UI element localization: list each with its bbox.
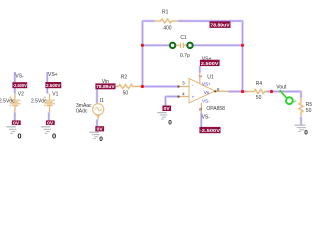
svg-text:R2: R2 <box>121 75 128 81</box>
svg-text:0V: 0V <box>13 120 19 125</box>
wire R5 to ground <box>300 117 303 125</box>
svg-text:VS-: VS- <box>202 99 210 104</box>
wire feedback top horizontal left of R1 <box>142 20 155 23</box>
wire Vin horizontal <box>97 85 113 88</box>
svg-text:78.89uV: 78.89uV <box>96 84 114 89</box>
wire Vin vertical to I1 <box>96 86 99 103</box>
ground 0 (opamp pin4) <box>157 113 167 119</box>
wire corner down to R5 <box>300 92 303 99</box>
bias annotation -2.500V (pin5) <box>199 127 220 133</box>
svg-text:5: 5 <box>197 108 203 111</box>
svg-text:VS+: VS+ <box>48 72 58 78</box>
svg-text:50: 50 <box>256 95 262 101</box>
svg-text:50: 50 <box>123 90 129 96</box>
bias annotation 0V (V2 gnd) <box>12 120 21 125</box>
svg-text:0.7p: 0.7p <box>180 53 190 59</box>
bias annotation 0V (V1 gnd) <box>46 120 55 125</box>
resistor R4 <box>247 81 267 101</box>
junction C1 right <box>241 44 244 47</box>
wire V1 power pole <box>46 72 49 94</box>
resistor R2 <box>113 75 140 97</box>
wire C1 row left <box>143 44 170 47</box>
svg-text:0: 0 <box>52 131 56 140</box>
svg-text:Vs: Vs <box>204 90 210 95</box>
svg-text:0: 0 <box>99 136 103 143</box>
junction R2 / feedback <box>141 85 144 88</box>
bias annotation 0V (pin4 gnd) <box>162 106 171 112</box>
svg-text:3: 3 <box>182 81 185 87</box>
svg-text:400: 400 <box>163 25 172 31</box>
bias annotation 78.89uV (top) <box>210 21 231 28</box>
wire I1 bottom to ground <box>96 120 99 127</box>
svg-text:I1: I1 <box>100 98 104 104</box>
svg-text:+: + <box>192 95 195 100</box>
svg-text:2.500V: 2.500V <box>46 83 60 88</box>
svg-text:0: 0 <box>168 119 172 126</box>
current marker green ring C1 right <box>187 43 192 48</box>
resistor R5 vertical <box>299 98 312 116</box>
wire pin4 vertical to ground <box>164 97 167 107</box>
wire V2 bottom <box>13 113 16 121</box>
svg-text:-2.500V: -2.500V <box>200 128 220 133</box>
svg-text:0: 0 <box>304 129 308 136</box>
voltage source V2 battery <box>0 92 24 113</box>
svg-text:0Adc: 0Adc <box>76 109 88 115</box>
svg-text:0V: 0V <box>47 120 53 125</box>
bias annotation 78.89uV (Vin) <box>95 83 115 89</box>
wire opamp pin5 power <box>200 113 203 128</box>
svg-text:C1: C1 <box>180 35 187 41</box>
svg-text:OPA858: OPA858 <box>206 106 225 112</box>
svg-text:7: 7 <box>197 75 203 78</box>
svg-text:50: 50 <box>306 108 312 114</box>
wire feedback top horizontal right of R1 <box>178 20 243 23</box>
wire V2 power pole <box>13 72 16 94</box>
resistor R1 <box>155 10 179 32</box>
current source I1 <box>76 98 104 119</box>
svg-text:2.5Vdc: 2.5Vdc <box>31 98 47 104</box>
ground 0 (I1) <box>89 132 99 138</box>
wire pin4 horizontal <box>165 95 179 98</box>
svg-text:6: 6 <box>217 87 220 93</box>
junction output / feedback <box>241 90 244 93</box>
svg-text:VS-: VS- <box>15 74 24 80</box>
svg-text:78.89uV: 78.89uV <box>210 23 229 28</box>
op-amp U1 OPA858 <box>178 73 229 114</box>
wire V1 bottom <box>47 113 50 121</box>
current marker green ring C1 left <box>170 43 175 48</box>
bias annotation 0V (I1 gnd) <box>95 126 104 131</box>
svg-text:VS+: VS+ <box>202 81 211 86</box>
svg-text:V1: V1 <box>52 92 58 98</box>
ground 0 (R5) <box>295 125 306 131</box>
svg-text:V2: V2 <box>18 92 24 98</box>
svg-text:Vout: Vout <box>276 85 287 91</box>
wire opamp pin7 power <box>198 66 201 73</box>
wire R4 to corner <box>266 90 301 93</box>
wire feedback right vertical <box>241 20 244 91</box>
wire feedback left vertical <box>141 21 144 87</box>
svg-text:R4: R4 <box>256 81 263 87</box>
wire opamp output to R4 <box>229 90 247 93</box>
svg-text:VS-: VS- <box>202 114 211 120</box>
svg-text:-2.500V: -2.500V <box>13 83 27 88</box>
voltage source V1 battery <box>31 92 59 113</box>
svg-text:U1: U1 <box>207 75 214 81</box>
svg-text:0V: 0V <box>97 127 103 132</box>
ground 0 (V1) <box>41 127 51 134</box>
bias annotation 2.500V (V1) <box>45 82 61 88</box>
bias annotation -2.500V (V2) <box>12 82 27 88</box>
svg-text:R1: R1 <box>162 10 169 16</box>
wire C1 row right <box>194 44 243 47</box>
bias annotation 2.500V (pin7) <box>200 60 220 66</box>
capacitor C1 <box>177 35 190 59</box>
svg-text:0V: 0V <box>164 106 170 111</box>
svg-text:0: 0 <box>17 131 21 140</box>
voltage probe Vout (green marker) <box>280 90 296 104</box>
wire R2 to opamp pin3 <box>140 85 178 88</box>
ground 0 (V2) <box>6 127 16 134</box>
svg-text:4: 4 <box>182 91 185 97</box>
junction C1 left <box>141 44 144 47</box>
svg-text:2.500V: 2.500V <box>201 61 219 66</box>
junction Vout <box>270 90 273 93</box>
svg-text:2.5Vdc: 2.5Vdc <box>0 98 15 104</box>
